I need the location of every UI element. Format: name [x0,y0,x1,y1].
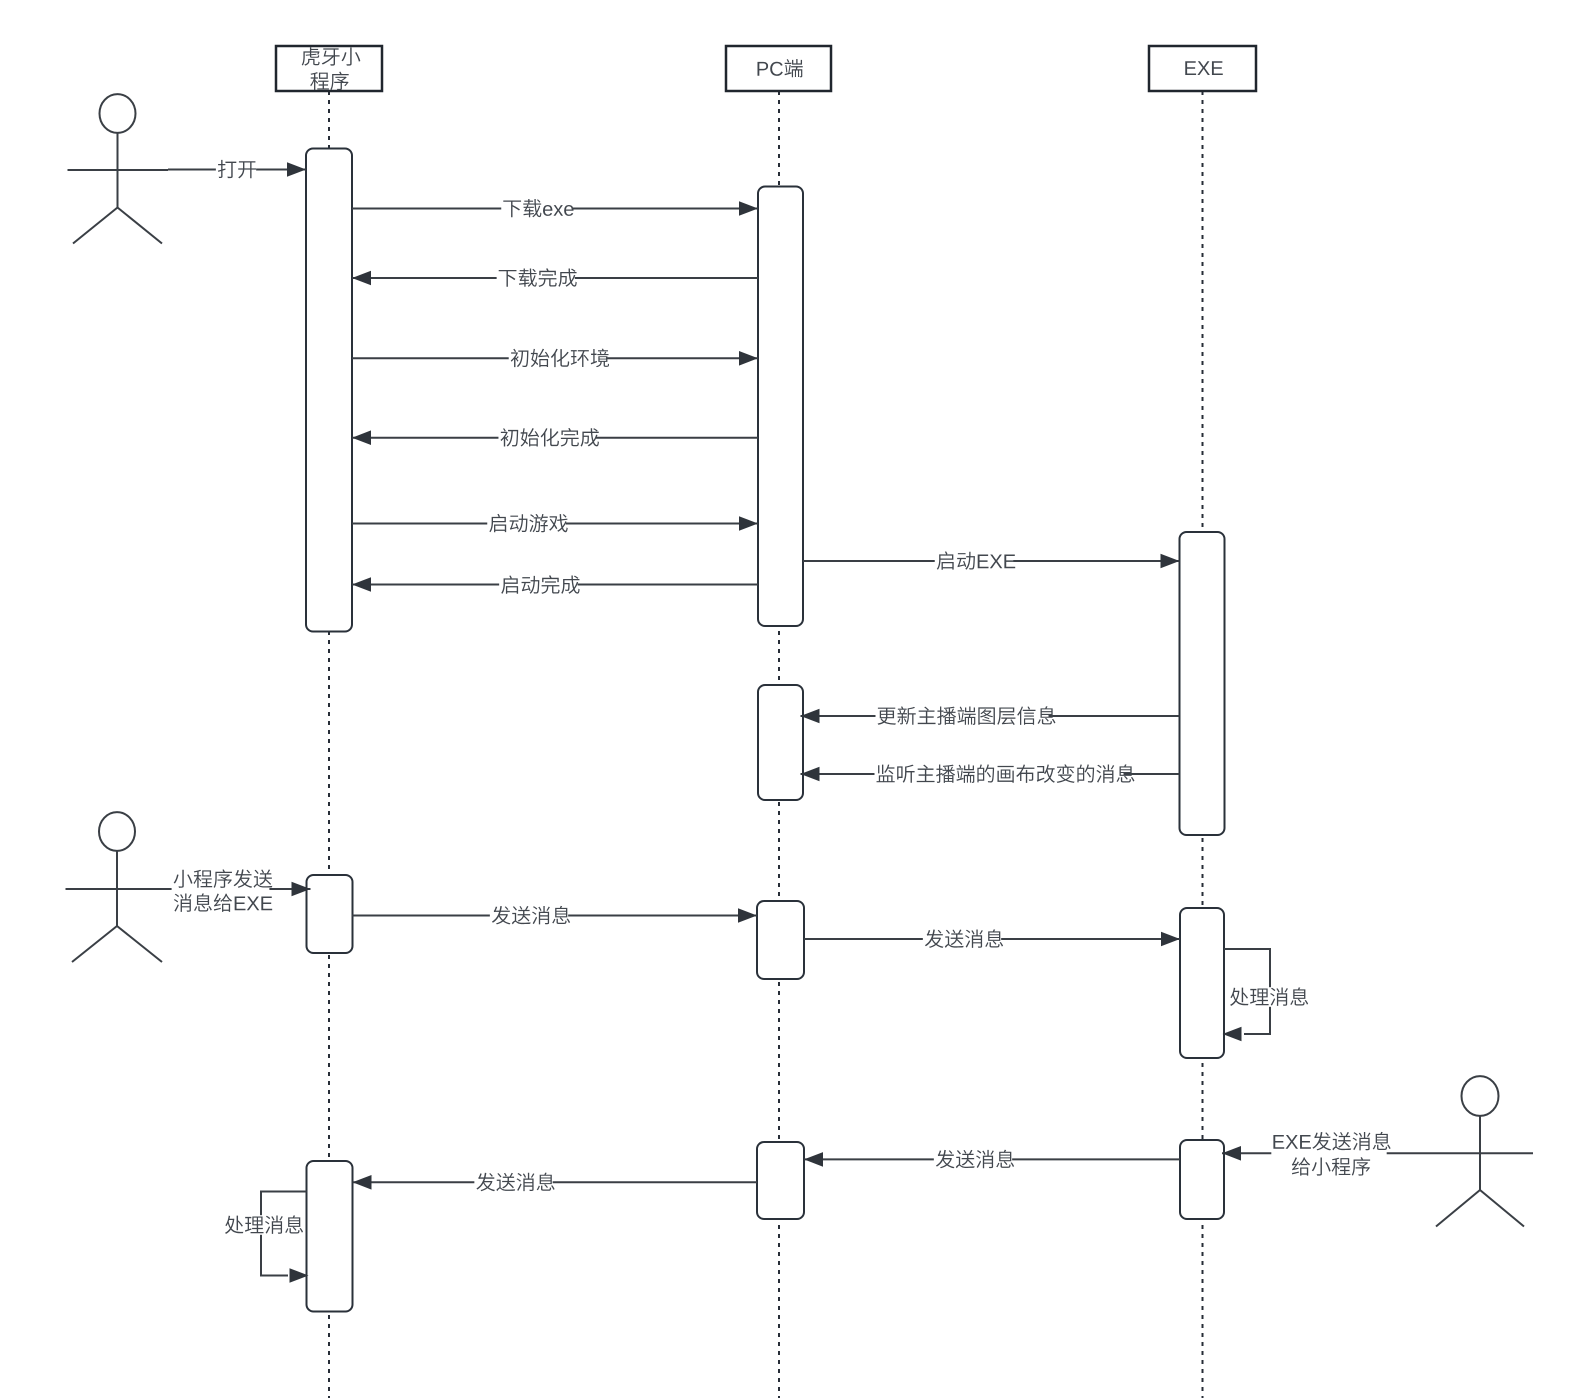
message 发送消息 PC端 to 虎牙小程序 [353,1172,758,1192]
lifeline PC端 [778,91,780,1398]
actor user middle-left [66,812,172,962]
message 启动EXE PC端 to EXE [803,551,1180,570]
message 启动游戏 虎牙小程序 to PC端 [352,514,758,533]
activation bar B3 on PC端 [757,901,804,979]
message 初始化完成 PC端 to 虎牙小程序 [352,428,758,448]
message 更新主播端图层信息 EXE to PC端 [801,706,1180,726]
message 发送消息 虎牙小程序 to PC端 [352,906,757,926]
message 打开 from actor to 虎牙小程序 [168,160,306,179]
message 发送消息 EXE to PC端 [804,1150,1180,1170]
message 监听主播端的画布改变的消息 EXE to PC端 [801,764,1180,784]
activation bar A3 on 虎牙小程序 [307,1161,353,1312]
self message 处理消息 loop on EXE [1223,949,1309,1041]
activation bar B2 on PC端 [758,685,803,800]
activation bar A1 on 虎牙小程序 [306,149,352,632]
self message 处理消息 loop on 虎牙小程序 [223,1192,309,1283]
message 发送消息 PC端 to EXE [804,929,1180,949]
participant box 虎牙小程序 [276,46,382,91]
message 启动完成 PC端 to 虎牙小程序 [352,575,758,595]
activation bar B1 on PC端 [758,187,803,627]
actor user top-left [68,94,169,243]
participant box PC端 [726,46,831,91]
message 小程序发送消息给EXE from actor to 虎牙小程序 [168,869,311,913]
activation bar C1 on EXE [1180,532,1225,835]
lifeline 虎牙小程序 [328,91,330,1398]
lifeline EXE [1202,91,1204,1398]
message 下载exe 虎牙小程序 to PC端 [352,199,758,218]
activation bar C2 on EXE [1180,908,1224,1058]
activation bar C3 on EXE [1180,1140,1224,1219]
participant box EXE [1149,46,1256,91]
activation bar B4 on PC端 [757,1142,804,1219]
message EXE发送消息给小程序 from actor to EXE [1222,1132,1428,1177]
message 初始化环境 虎牙小程序 to PC端 [352,349,758,369]
actor user bottom-right [1428,1076,1534,1226]
activation bar A2 on 虎牙小程序 [307,875,353,953]
message 下载完成 PC端 to 虎牙小程序 [352,268,758,288]
